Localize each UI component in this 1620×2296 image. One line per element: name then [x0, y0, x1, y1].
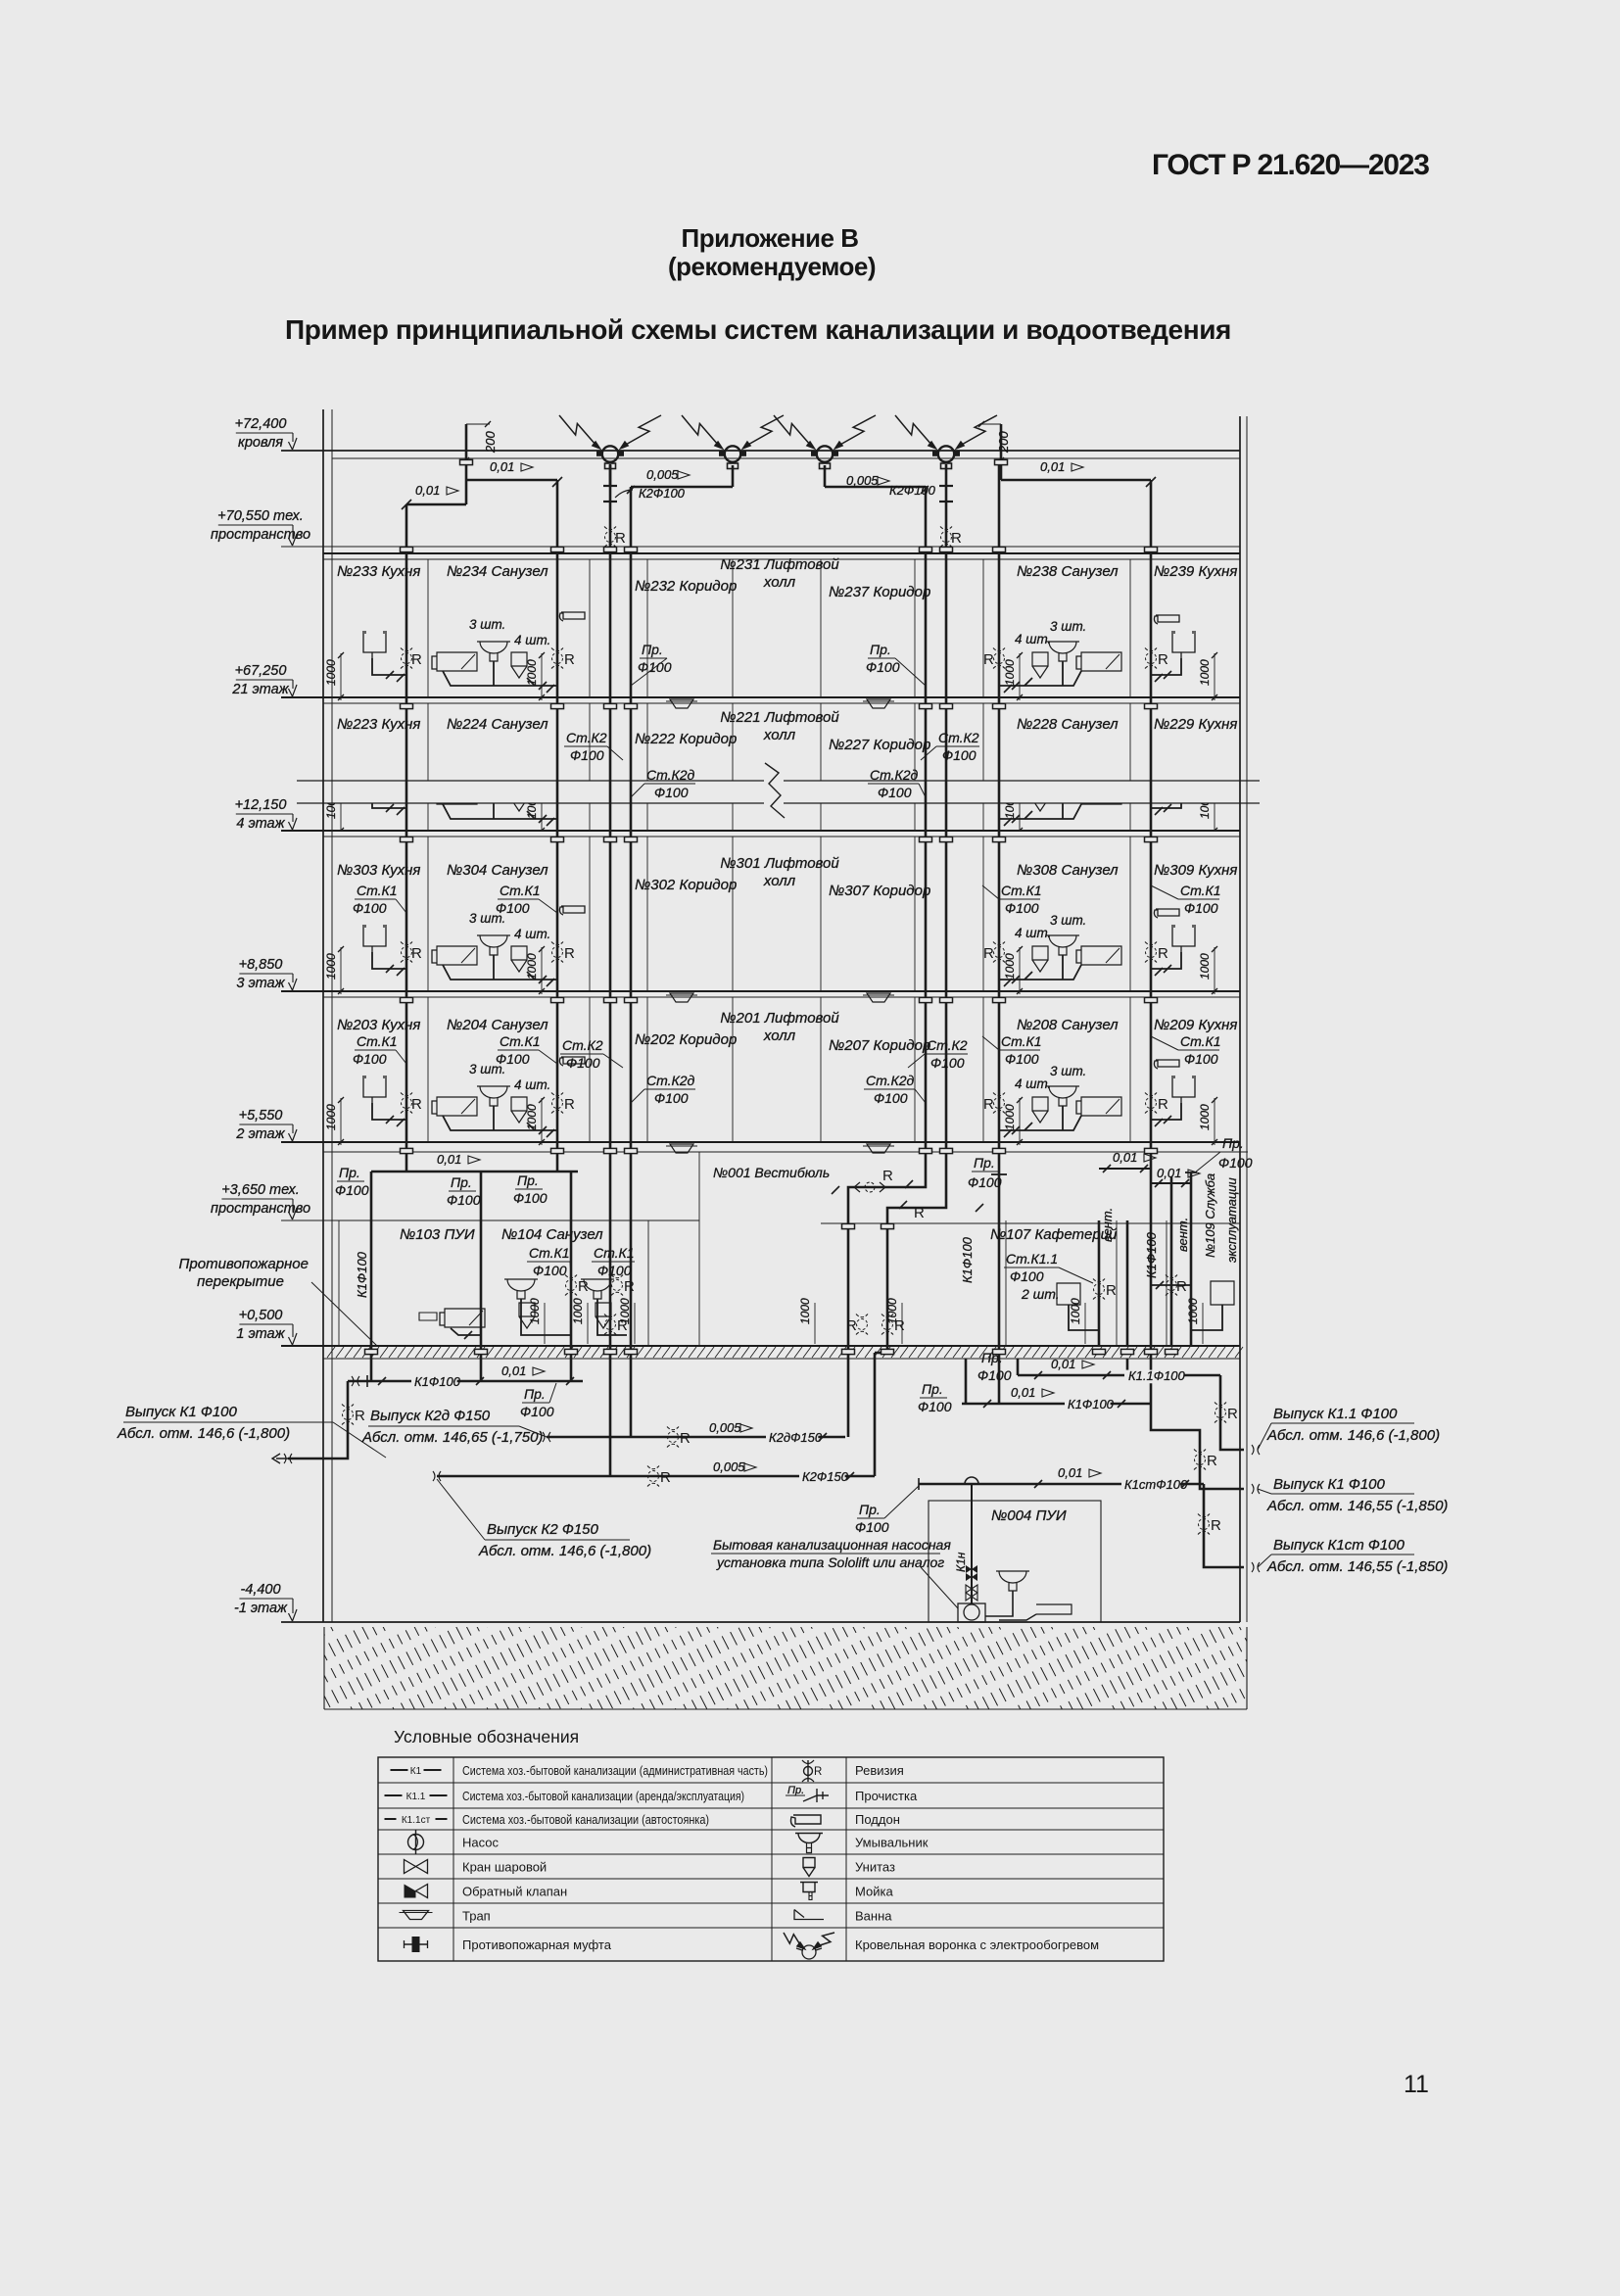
svg-text:Ст.К2д: Ст.К2д	[866, 1073, 915, 1088]
svg-text:+8,850: +8,850	[239, 957, 283, 973]
svg-text:№231 Лифтовой: №231 Лифтовой	[720, 556, 839, 573]
svg-text:К1Ф100: К1Ф100	[960, 1236, 975, 1283]
svg-text:Противопожарное: Противопожарное	[179, 1256, 309, 1272]
svg-text:0,005: 0,005	[646, 467, 679, 482]
svg-text:№302 Коридор: №302 Коридор	[635, 877, 737, 893]
svg-text:Умывальник: Умывальник	[855, 1836, 929, 1850]
svg-text:0,01: 0,01	[1040, 459, 1065, 474]
svg-text:Абсл. отм. 146,55 (-1,850): Абсл. отм. 146,55 (-1,850)	[1266, 1498, 1448, 1514]
svg-text:К1.1ст: К1.1ст	[402, 1815, 431, 1826]
svg-text:Ф100: Ф100	[513, 1190, 548, 1206]
svg-text:№103 ПУИ: №103 ПУИ	[400, 1226, 475, 1243]
svg-text:0,01: 0,01	[1051, 1357, 1075, 1371]
svg-text:Ф100: Ф100	[942, 747, 977, 763]
svg-text:2 шт.: 2 шт.	[1021, 1286, 1060, 1302]
svg-text:Пр.: Пр.	[1222, 1135, 1244, 1151]
svg-text:Абсл. отм. 146,6 (-1,800): Абсл. отм. 146,6 (-1,800)	[478, 1543, 651, 1559]
svg-text:Ст.К2: Ст.К2	[562, 1037, 603, 1053]
svg-text:Ст.К1: Ст.К1	[1001, 1033, 1042, 1049]
svg-text:4 шт.: 4 шт.	[514, 1077, 550, 1092]
svg-text:№238 Санузел: №238 Санузел	[1017, 563, 1119, 580]
svg-text:К2Ф150: К2Ф150	[802, 1469, 849, 1484]
svg-text:0,01: 0,01	[1011, 1385, 1035, 1400]
svg-text:R: R	[564, 945, 575, 962]
svg-text:4 этаж: 4 этаж	[236, 816, 285, 832]
svg-text:R: R	[846, 1317, 857, 1334]
svg-text:№222 Коридор: №222 Коридор	[635, 731, 737, 747]
svg-text:Пр.: Пр.	[642, 642, 663, 657]
svg-text:Выпуск К1 Ф100: Выпуск К1 Ф100	[125, 1404, 238, 1420]
svg-text:1000: 1000	[525, 953, 539, 980]
svg-text:№207 Коридор: №207 Коридор	[829, 1037, 930, 1054]
svg-text:К1: К1	[410, 1766, 422, 1777]
svg-text:Условные обозначения: Условные обозначения	[394, 1727, 579, 1746]
svg-text:Ф100: Ф100	[335, 1182, 369, 1198]
svg-text:21 этаж: 21 этаж	[231, 682, 289, 697]
svg-text:4 шт.: 4 шт.	[1015, 926, 1051, 940]
svg-text:Кран шаровой: Кран шаровой	[462, 1860, 547, 1875]
svg-text:Ст.К1: Ст.К1	[357, 883, 398, 898]
svg-text:0,01: 0,01	[501, 1363, 526, 1378]
svg-text:1000: 1000	[1198, 1104, 1212, 1130]
svg-text:холл: холл	[763, 873, 796, 889]
svg-text:R: R	[680, 1430, 691, 1447]
svg-text:Ф100: Ф100	[566, 1055, 600, 1071]
svg-text:R: R	[1158, 945, 1168, 962]
svg-text:R: R	[624, 1278, 635, 1295]
svg-text:Ф100: Ф100	[447, 1192, 481, 1208]
svg-text:Ст.К1.1: Ст.К1.1	[1006, 1251, 1058, 1267]
svg-text:+5,550: +5,550	[239, 1108, 283, 1124]
svg-text:Выпуск К2д Ф150: Выпуск К2д Ф150	[370, 1408, 491, 1424]
svg-text:R: R	[411, 651, 422, 668]
svg-text:0,005: 0,005	[846, 473, 879, 488]
svg-text:К2дФ150: К2дФ150	[769, 1430, 823, 1445]
svg-text:1 этаж: 1 этаж	[236, 1326, 285, 1342]
svg-text:Ф100: Ф100	[977, 1367, 1012, 1383]
svg-text:Система хоз.-бытовой канализац: Система хоз.-бытовой канализации (админи…	[462, 1763, 768, 1778]
svg-text:1000: 1000	[324, 1104, 338, 1130]
svg-text:Ф100: Ф100	[878, 785, 912, 800]
svg-text:№232 Коридор: №232 Коридор	[635, 578, 737, 595]
svg-text:R: R	[882, 1168, 893, 1184]
svg-text:Ф100: Ф100	[353, 1051, 387, 1067]
svg-text:+3,650 тех.: +3,650 тех.	[221, 1182, 300, 1198]
svg-text:R: R	[1227, 1406, 1238, 1422]
svg-text:1000: 1000	[798, 1298, 812, 1324]
svg-text:R: R	[617, 1317, 628, 1334]
svg-text:Пр.: Пр.	[859, 1502, 881, 1517]
svg-text:Ф100: Ф100	[520, 1404, 554, 1419]
svg-text:1000: 1000	[324, 659, 338, 686]
svg-text:Выпуск К2 Ф150: Выпуск К2 Ф150	[487, 1521, 599, 1538]
svg-text:Насос: Насос	[462, 1836, 499, 1850]
svg-text:R: R	[983, 945, 994, 962]
svg-text:0,005: 0,005	[713, 1459, 745, 1474]
svg-text:200: 200	[483, 431, 498, 454]
svg-text:Кровельная воронка с электрооб: Кровельная воронка с электрообогревом	[855, 1937, 1099, 1952]
svg-text:К1Ф100: К1Ф100	[1144, 1231, 1159, 1278]
svg-text:1000: 1000	[1003, 953, 1017, 980]
svg-text:3 шт.: 3 шт.	[1050, 913, 1086, 928]
svg-text:Абсл. отм. 146,6 (-1,800): Абсл. отм. 146,6 (-1,800)	[117, 1425, 290, 1442]
svg-text:+12,150: +12,150	[235, 797, 287, 813]
svg-text:№201 Лифтовой: №201 Лифтовой	[720, 1010, 839, 1027]
svg-text:3 шт.: 3 шт.	[1050, 619, 1086, 634]
svg-text:Ф100: Ф100	[1184, 900, 1218, 916]
svg-text:1000: 1000	[1198, 659, 1212, 686]
svg-text:R: R	[564, 1096, 575, 1113]
svg-text:0,01: 0,01	[1058, 1465, 1082, 1480]
svg-text:Пр.: Пр.	[451, 1174, 472, 1190]
svg-text:Ф100: Ф100	[353, 900, 387, 916]
svg-text:0,005: 0,005	[709, 1420, 741, 1435]
svg-text:пространство: пространство	[211, 527, 310, 543]
svg-text:R: R	[411, 945, 422, 962]
svg-text:R: R	[1106, 1282, 1117, 1299]
svg-text:Ф100: Ф100	[1184, 1051, 1218, 1067]
svg-text:№109 Служба: №109 Служба	[1203, 1173, 1217, 1258]
svg-text:№307 Коридор: №307 Коридор	[829, 883, 930, 899]
svg-text:R: R	[1176, 1278, 1187, 1295]
svg-text:№104 Санузел: №104 Санузел	[501, 1226, 603, 1243]
svg-text:-4,400: -4,400	[240, 1582, 280, 1598]
svg-text:R: R	[578, 1278, 589, 1295]
svg-text:холл: холл	[763, 1028, 796, 1044]
svg-text:№237 Коридор: №237 Коридор	[829, 584, 930, 600]
svg-text:+67,250: +67,250	[235, 663, 287, 679]
svg-text:№308 Санузел: №308 Санузел	[1017, 862, 1119, 879]
svg-text:Пр.: Пр.	[974, 1155, 995, 1171]
svg-text:R: R	[1211, 1517, 1221, 1534]
svg-text:К1.1Ф100: К1.1Ф100	[1128, 1368, 1186, 1383]
svg-text:№228 Санузел: №228 Санузел	[1017, 716, 1119, 733]
svg-text:1000: 1000	[1003, 1104, 1017, 1130]
svg-text:R: R	[355, 1408, 365, 1424]
svg-text:№224 Санузел: №224 Санузел	[447, 716, 548, 733]
svg-text:Ст.К1: Ст.К1	[1180, 1033, 1221, 1049]
svg-text:Ф100: Ф100	[1218, 1155, 1253, 1171]
svg-text:Ф100: Ф100	[918, 1399, 952, 1414]
svg-text:R: R	[914, 1205, 925, 1221]
svg-text:№004 ПУИ: №004 ПУИ	[991, 1507, 1067, 1524]
svg-text:3 шт.: 3 шт.	[1050, 1064, 1086, 1078]
svg-text:R: R	[411, 1096, 422, 1113]
svg-text:Ванна: Ванна	[855, 1909, 892, 1924]
svg-text:Ст.К1: Ст.К1	[1001, 883, 1042, 898]
svg-text:№001 Вестибюль: №001 Вестибюль	[713, 1165, 830, 1180]
svg-text:Ф100: Ф100	[597, 1263, 632, 1278]
svg-text:Ф100: Ф100	[930, 1055, 965, 1071]
svg-text:Ст.К2д: Ст.К2д	[870, 767, 919, 783]
svg-text:+70,550 тех.: +70,550 тех.	[217, 508, 304, 524]
svg-text:1000: 1000	[525, 659, 539, 686]
svg-text:Ф100: Ф100	[866, 659, 900, 675]
svg-text:3 этаж: 3 этаж	[236, 976, 285, 991]
svg-text:№234 Санузел: №234 Санузел	[447, 563, 548, 580]
svg-text:1000: 1000	[324, 953, 338, 980]
svg-text:Противопожарная муфта: Противопожарная муфта	[462, 1937, 612, 1952]
svg-text:Обратный клапан: Обратный клапан	[462, 1885, 567, 1899]
svg-text:Трап: Трап	[462, 1909, 491, 1924]
svg-text:Ф100: Ф100	[1005, 1051, 1039, 1067]
svg-text:Ф100: Ф100	[855, 1519, 889, 1535]
svg-text:Система хоз.-бытовой канализац: Система хоз.-бытовой канализации (аренда…	[462, 1789, 744, 1803]
svg-text:Ст.К1: Ст.К1	[500, 1033, 541, 1049]
svg-text:Прочистка: Прочистка	[855, 1789, 918, 1803]
svg-text:1000: 1000	[885, 1298, 899, 1324]
svg-text:ГОСТ Р 21.620—2023: ГОСТ Р 21.620—2023	[1152, 149, 1429, 181]
svg-text:R: R	[951, 530, 962, 547]
svg-text:Ст.К1: Ст.К1	[1180, 883, 1221, 898]
svg-text:0,01: 0,01	[415, 483, 440, 498]
svg-text:R: R	[1158, 1096, 1168, 1113]
svg-text:Пр.: Пр.	[787, 1785, 804, 1796]
svg-text:Выпуск К1ст Ф100: Выпуск К1ст Ф100	[1273, 1537, 1406, 1554]
svg-text:Ст.К2: Ст.К2	[566, 730, 607, 745]
svg-text:0,01: 0,01	[1157, 1166, 1181, 1180]
svg-text:3 шт.: 3 шт.	[469, 617, 505, 632]
svg-text:Абсл. отм. 146,55 (-1,850): Абсл. отм. 146,55 (-1,850)	[1266, 1558, 1448, 1575]
svg-text:+72,400: +72,400	[235, 416, 287, 432]
svg-text:№229 Кухня: №229 Кухня	[1154, 716, 1237, 733]
svg-text:№233 Кухня: №233 Кухня	[337, 563, 420, 580]
svg-text:Ревизия: Ревизия	[855, 1763, 904, 1778]
svg-text:К2Ф100: К2Ф100	[889, 483, 936, 498]
svg-text:К1Ф100: К1Ф100	[355, 1251, 369, 1298]
svg-text:2 этаж: 2 этаж	[235, 1126, 285, 1142]
svg-text:вент.: вент.	[1175, 1218, 1190, 1252]
svg-text:Ф100: Ф100	[654, 785, 689, 800]
svg-text:№301 Лифтовой: №301 Лифтовой	[720, 855, 839, 872]
svg-text:1000: 1000	[1003, 659, 1017, 686]
svg-text:К1Ф100: К1Ф100	[1068, 1397, 1115, 1411]
svg-text:эксплуатации: эксплуатации	[1224, 1177, 1239, 1263]
svg-text:Ф100: Ф100	[874, 1090, 908, 1106]
svg-text:№227 Коридор: №227 Коридор	[829, 737, 930, 753]
svg-text:Ст.К1: Ст.К1	[594, 1245, 635, 1261]
svg-text:0,01: 0,01	[437, 1152, 461, 1167]
svg-text:4 шт.: 4 шт.	[1015, 632, 1051, 646]
svg-text:К1н: К1н	[954, 1552, 968, 1572]
svg-text:Ф100: Ф100	[496, 1051, 530, 1067]
svg-text:пространство: пространство	[211, 1201, 310, 1217]
svg-text:1000: 1000	[571, 1298, 585, 1324]
svg-text:Пр.: Пр.	[922, 1381, 943, 1397]
svg-text:установка типа Sololift или ан: установка типа Sololift или аналог	[716, 1555, 944, 1570]
svg-text:11: 11	[1404, 2071, 1429, 2098]
svg-text:Унитаз: Унитаз	[855, 1860, 895, 1875]
svg-text:Ф100: Ф100	[570, 747, 604, 763]
svg-text:№203 Кухня: №203 Кухня	[337, 1017, 420, 1033]
svg-text:№239 Кухня: №239 Кухня	[1154, 563, 1237, 580]
svg-text:0,01: 0,01	[1113, 1150, 1137, 1165]
svg-text:Выпуск К1 Ф100: Выпуск К1 Ф100	[1273, 1476, 1386, 1493]
svg-text:Мойка: Мойка	[855, 1885, 893, 1899]
svg-text:К2Ф100: К2Ф100	[639, 486, 686, 501]
svg-text:Ф100: Ф100	[496, 900, 530, 916]
svg-text:Бытовая канализационная насосн: Бытовая канализационная насосная	[713, 1537, 951, 1553]
svg-text:№303 Кухня: №303 Кухня	[337, 862, 420, 879]
svg-text:R: R	[564, 651, 575, 668]
svg-text:№309 Кухня: №309 Кухня	[1154, 862, 1237, 879]
svg-text:Пр.: Пр.	[339, 1165, 360, 1180]
svg-text:Ф100: Ф100	[1005, 900, 1039, 916]
svg-text:Ф100: Ф100	[533, 1263, 567, 1278]
svg-text:Ст.К2: Ст.К2	[938, 730, 979, 745]
svg-text:R: R	[1207, 1453, 1217, 1469]
svg-text:200: 200	[996, 431, 1011, 454]
svg-text:4 шт.: 4 шт.	[514, 633, 550, 647]
svg-text:перекрытие: перекрытие	[197, 1273, 284, 1290]
svg-text:R: R	[983, 651, 994, 668]
svg-text:0,01: 0,01	[490, 459, 514, 474]
svg-text:1000: 1000	[1186, 1298, 1200, 1324]
svg-text:Система хоз.-бытовой канализац: Система хоз.-бытовой канализации (автост…	[462, 1812, 709, 1827]
svg-text:R: R	[660, 1469, 671, 1486]
svg-text:R: R	[615, 530, 626, 547]
svg-text:+0,500: +0,500	[239, 1308, 283, 1323]
svg-text:Ст.К2д: Ст.К2д	[646, 767, 695, 783]
svg-text:К1Ф100: К1Ф100	[414, 1374, 461, 1389]
svg-text:Ф100: Ф100	[654, 1090, 689, 1106]
svg-text:Абсл. отм. 146,65 (-1,750): Абсл. отм. 146,65 (-1,750)	[361, 1429, 543, 1446]
svg-text:Пр.: Пр.	[517, 1172, 539, 1188]
svg-text:1000: 1000	[528, 1298, 542, 1324]
svg-text:Поддон: Поддон	[855, 1812, 900, 1827]
svg-text:1000: 1000	[1198, 953, 1212, 980]
svg-text:№221 Лифтовой: №221 Лифтовой	[720, 709, 839, 726]
svg-text:4 шт.: 4 шт.	[514, 927, 550, 941]
svg-text:Пример принципиальной схемы си: Пример принципиальной схемы систем канал…	[285, 314, 1231, 345]
svg-text:№208 Санузел: №208 Санузел	[1017, 1017, 1119, 1033]
svg-text:Пр.: Пр.	[981, 1350, 1003, 1365]
svg-text:Ст.К1: Ст.К1	[529, 1245, 570, 1261]
svg-text:R: R	[1158, 651, 1168, 668]
svg-text:Приложение В: Приложение В	[682, 223, 859, 253]
svg-text:Ф100: Ф100	[1010, 1268, 1044, 1284]
svg-text:Пр.: Пр.	[870, 642, 891, 657]
svg-text:-1 этаж: -1 этаж	[234, 1601, 288, 1616]
svg-text:холл: холл	[763, 727, 796, 743]
svg-text:Абсл. отм. 146,6 (-1,800): Абсл. отм. 146,6 (-1,800)	[1266, 1427, 1440, 1444]
svg-text:4 шт.: 4 шт.	[1015, 1076, 1051, 1091]
svg-text:Ст.К2: Ст.К2	[927, 1037, 968, 1053]
svg-text:кровля: кровля	[238, 435, 283, 451]
svg-text:№204 Санузел: №204 Санузел	[447, 1017, 548, 1033]
svg-text:К1стФ100: К1стФ100	[1124, 1477, 1188, 1492]
svg-text:(рекомендуемое): (рекомендуемое)	[668, 252, 876, 281]
svg-text:Ст.К2д: Ст.К2д	[646, 1073, 695, 1088]
svg-text:№209 Кухня: №209 Кухня	[1154, 1017, 1237, 1033]
svg-text:№304 Санузел: №304 Санузел	[447, 862, 548, 879]
svg-text:№202 Коридор: №202 Коридор	[635, 1031, 737, 1048]
svg-text:Выпуск К1.1 Ф100: Выпуск К1.1 Ф100	[1273, 1406, 1398, 1422]
svg-text:R: R	[814, 1766, 822, 1778]
svg-text:1000: 1000	[1069, 1298, 1082, 1324]
svg-text:Ст.К1: Ст.К1	[357, 1033, 398, 1049]
svg-text:Ст.К1: Ст.К1	[500, 883, 541, 898]
svg-text:№223 Кухня: №223 Кухня	[337, 716, 420, 733]
svg-text:R: R	[983, 1096, 994, 1113]
svg-text:вент.: вент.	[1100, 1208, 1115, 1242]
svg-text:1000: 1000	[525, 1104, 539, 1130]
svg-text:К1.1: К1.1	[406, 1792, 426, 1802]
svg-text:Ф100: Ф100	[968, 1174, 1002, 1190]
svg-text:Пр.: Пр.	[524, 1386, 546, 1402]
svg-text:холл: холл	[763, 574, 796, 591]
